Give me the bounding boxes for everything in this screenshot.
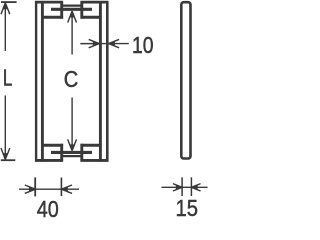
- dimension 10: right line segment: [109, 43, 129, 45]
- dimension L: top extension tick: [1, 1, 17, 3]
- dimension 10: right-pointing arrowhead: [93, 41, 99, 45]
- dimension 10: left line segment: [80, 43, 99, 45]
- dimension L: upper line segment: [4, 4, 6, 52]
- dimension 40: left extension tick: [34, 177, 36, 196]
- front view: bottom cap left: [35, 159, 63, 162]
- top stud upper line: [62, 4, 82, 6]
- dimension 15: left extension tick: [181, 177, 183, 196]
- dimension C: down arrowhead: [70, 144, 74, 150]
- dimension 40: right-pointing arrowhead: [29, 187, 35, 191]
- top-left fixing block: right edge: [60, 2, 63, 19]
- bottom-left fixing block: right edge: [60, 144, 63, 161]
- dimension L: down arrowhead: [3, 153, 7, 159]
- dimension 10: left-pointing arrowhead: [109, 41, 115, 45]
- front view: top cap left: [35, 1, 63, 4]
- front view: top cap right: [80, 1, 108, 4]
- svg-text:15: 15: [176, 195, 199, 221]
- dimension C: lower line segment: [71, 98, 73, 151]
- top-right fixing block: left edge: [80, 2, 83, 19]
- dimension 10: middle line segment: [102, 43, 106, 45]
- dimension L: bottom extension tick: [1, 159, 16, 161]
- dimension 40: right extension tick: [60, 178, 62, 197]
- dimension 15: left-pointing arrowhead: [191, 185, 197, 189]
- bottom stud lower line: [62, 155, 82, 157]
- dimension L: up arrowhead: [3, 3, 7, 9]
- dimension 15: line: [161, 186, 207, 188]
- top-left fixing block: bottom edge: [43, 16, 63, 19]
- svg-text:10: 10: [132, 32, 154, 58]
- bottom-left fixing block: top edge: [43, 144, 63, 147]
- dimension 40: line: [19, 188, 79, 190]
- side view: handle profile outline: [181, 2, 190, 158]
- front view: left inner edge line: [41, 1, 44, 162]
- dimension C: upper line segment: [71, 12, 73, 55]
- dimension 40: left-pointing arrowhead: [62, 187, 68, 191]
- front view: right outer edge line: [106, 1, 109, 162]
- bottom fixing stud bar: [51, 151, 92, 154]
- dimension 15: right extension tick: [190, 177, 192, 196]
- front view: right inner edge line: [99, 1, 102, 162]
- dimension L: lower line segment: [4, 96, 6, 159]
- front view: bottom cap right: [80, 159, 108, 162]
- svg-text:C: C: [64, 66, 79, 92]
- svg-text:L: L: [3, 65, 13, 91]
- front view: left outer edge line: [35, 1, 37, 162]
- bottom-right fixing block: left edge: [80, 144, 83, 161]
- svg-text:40: 40: [37, 196, 59, 222]
- dimension 15: right-pointing arrowhead: [176, 185, 182, 189]
- top fixing stud bar: [51, 8, 92, 11]
- bottom-right fixing block: top edge: [81, 144, 102, 147]
- dimension C: up arrowhead: [70, 11, 74, 17]
- top-right fixing block: bottom edge: [81, 16, 102, 19]
